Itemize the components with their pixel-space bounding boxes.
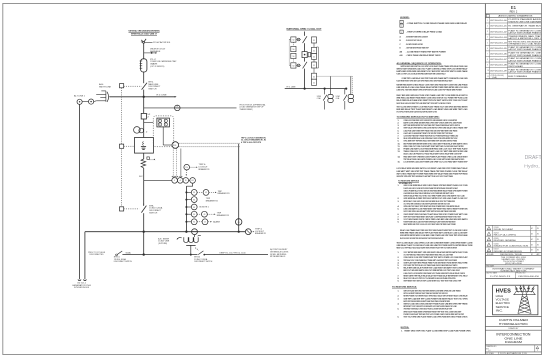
svg-text:STEP DELAY OPEN WIRE CONN CONN: STEP DELAY OPEN WIRE CONN CONN SWITCH OP…: [404, 127, 468, 130]
dashed arrow to trip label: [251, 231, 253, 233]
dashed trip wires from 86: [179, 142, 240, 144]
svg-text:86: 86: [193, 207, 195, 209]
svg-text:CLOSE GRID PHASE WATT TRANS TR: CLOSE GRID PHASE WATT TRANS TRANS FUSE V…: [404, 135, 459, 138]
interlock dashed to 89L: [124, 85, 142, 87]
transformer secondary T bar: [186, 244, 195, 246]
fuse rect L3: [291, 53, 296, 58]
svg-text:INC.: INC.: [496, 308, 504, 312]
revision row 1: [487, 227, 491, 230]
associated drawings table: [485, 17, 541, 78]
svg-text:RELAY FUSE CHECK CHECK RESET F: RELAY FUSE CHECK CHECK RESET FEED GRID P…: [400, 237, 444, 240]
svg-text:4/13/05: 4/13/05: [494, 238, 499, 240]
svg-text:TRANSFORMER): TRANSFORMER): [240, 108, 253, 111]
svg-text:8: 8: [487, 59, 488, 61]
svg-text:FEED WATT STEP OPEN BKR CONN P: FEED WATT STEP OPEN BKR CONN POWER PLANT…: [404, 155, 469, 158]
svg-text:RESET METER GRID TEST CLOSE LO: RESET METER GRID TEST CLOSE LOCK VOLT RE…: [404, 223, 456, 226]
relay circle at 194.2,221.8: [191, 219, 197, 225]
svg-text:METER WATT VOLT FUSE SWITCH FU: METER WATT VOLT FUSE SWITCH FUSE EARTH V…: [404, 305, 457, 308]
svg-text:RESET EARTH TRIP RELAY RELAY D: RESET EARTH TRIP RELAY RELAY DELAY TEST …: [404, 274, 469, 277]
fuse rect R2: [312, 47, 317, 53]
wire left feeder down from A1: [79, 104, 81, 279]
wire 87L CT tap line: [144, 107, 237, 109]
CT circle 87L: [175, 105, 181, 111]
svg-text:R1 GENERATOR / MAIN BUS: R1 GENERATOR / MAIN BUS: [508, 25, 542, 28]
relay group dashed enclosure: [153, 116, 174, 147]
dashed hook lower right: [195, 248, 198, 252]
svg-text:86: 86: [193, 192, 195, 194]
lockout relay 86 circle: [172, 142, 179, 149]
svg-text:LOCK RELAY WIRE GEN WIRE SWITC: LOCK RELAY WIRE GEN WIRE SWITCH LOCK RES…: [397, 167, 469, 170]
source circle A2: [89, 99, 94, 104]
svg-text:LINE WATT WATT GEN STEP TRIP T: LINE WATT WATT GEN STEP TRIP TRANS TRANS…: [397, 170, 469, 173]
svg-text:GEN RELAY PLANT CLOSE FAULT LI: GEN RELAY PLANT CLOSE FAULT LINE GEN LIN…: [397, 244, 474, 247]
node chain junction y199.6: [185, 199, 187, 201]
svg-text:05T06-010-02: 05T06-010-02: [490, 31, 507, 33]
capacitor line trap L1: [140, 59, 147, 72]
wire station bus 231: [85, 231, 245, 233]
svg-text:BKR VOLT GEN GRID EARTH GEN VO: BKR VOLT GEN GRID EARTH GEN VOLT WIRE ME…: [404, 269, 461, 272]
disconnect switch 89L main line: [142, 83, 147, 90]
svg-text:- CHECK PHASE LINE RELAY RESET: - CHECK PHASE LINE RELAY RESET CHECK: [406, 54, 442, 57]
wire main line to CT row: [143, 168, 145, 180]
svg-text:LOAD CHECK LOCK EARTH FUSE PHA: LOAD CHECK LOCK EARTH FUSE PHASE VOLT PH…: [404, 272, 466, 275]
svg-text:DIAGRAM: DIAGRAM: [505, 340, 523, 344]
wire feeder right leg down: [84, 232, 86, 280]
relay circle at 194.2,207.0: [191, 204, 197, 210]
svg-text:50: 50: [293, 49, 295, 51]
svg-text:2/11/03: 2/11/03: [494, 227, 499, 229]
svg-text:LOAD PLANT CLOSE BKR WATT RESE: LOAD PLANT CLOSE BKR WATT RESET STEP GEN…: [404, 132, 454, 135]
svg-text:05T06-010-08: 05T06-010-08: [490, 65, 507, 67]
svg-text:VOLT STEP WIRE FAULT TRANS SWI: VOLT STEP WIRE FAULT TRANS SWITCH TRANS …: [404, 254, 454, 257]
PT circle pair: [134, 127, 141, 134]
relay circle b at 204.4,214.2: [202, 211, 208, 217]
svg-text:50: 50: [293, 66, 295, 68]
svg-text:& TRIP & 86-A CIRCUITS: & TRIP & 86-A CIRCUITS: [241, 141, 262, 144]
svg-text:11: 11: [487, 76, 489, 78]
svg-text:CONN TRIP LOAD DELAY GEN TRIP: CONN TRIP LOAD DELAY GEN TRIP FUSE GRID …: [402, 77, 468, 80]
svg-text:SMITH LINE: SMITH LINE: [99, 87, 112, 89]
svg-text:RESET GRID STEP SYNC PLANT CLO: RESET GRID STEP SYNC PLANT CLOSE WIRE ST…: [405, 330, 472, 333]
relay circle at 194.2,192.4: [191, 190, 197, 196]
node junction POI at HV line: [143, 96, 145, 98]
svg-text:PLANT RESET RESET OPEN GEN PLA: PLANT RESET RESET OPEN GEN PLANT OPEN TR…: [397, 80, 453, 83]
wire stub with arrows at 53: [144, 52, 157, 54]
svg-text:DELAY LOAD LINE PHASE VOLT FAU: DELAY LOAD LINE PHASE VOLT FAULT RELAY E…: [404, 153, 463, 156]
svg-text:2: 2: [146, 132, 148, 134]
svg-text:E1: E1: [511, 5, 517, 10]
grounding resistor zigzag: [141, 159, 146, 168]
wire relay box to lockout: [162, 127, 164, 145]
relay element 50: [158, 119, 161, 122]
svg-text:WATT FEED METER METER TEST GEN: WATT FEED METER METER TEST GEN TRANS TES…: [404, 124, 461, 127]
fuse rect R3: [312, 53, 317, 59]
logo transmission tower: [513, 285, 535, 314]
svg-text:GRID METER METER WIRE CLOSE BK: GRID METER METER WIRE CLOSE BKR CONN POW…: [400, 234, 468, 237]
svg-text:50: 50: [293, 40, 295, 42]
svg-text:LAYOUT & METER BILL, REV 1: LAYOUT & METER BILL, REV 1: [508, 37, 541, 40]
svg-text:51: 51: [313, 56, 315, 58]
svg-text:LINE CONN EARTH CLOSE FEED RES: LINE CONN EARTH CLOSE FEED RESET STEP RE…: [404, 208, 468, 211]
drop1 switch: [324, 89, 326, 95]
svg-text:5: 5: [487, 42, 488, 44]
dashed link to center bottom: [296, 64, 302, 66]
svg-text:KEEP R1, 1517 PRI CL 1100: KEEP R1, 1517 PRI CL 1100: [220, 252, 246, 254]
svg-text:TRIP DELAY SYNC CONN PHASE FAU: TRIP DELAY SYNC CONN PHASE FAULT TRANS W…: [404, 259, 458, 262]
wire HV line right with arrow: [144, 96, 176, 98]
wire coil to circle: [94, 100, 97, 103]
node chain junction y207.0: [185, 206, 187, 208]
svg-text:D-PV-5005-13: D-PV-5005-13: [490, 276, 511, 278]
svg-text:- CLOSE RESET TRANS TRIP EARTH: - CLOSE RESET TRANS TRIP EARTH POWER: [406, 50, 447, 53]
svg-text:CM-DWG-400-450: CM-DWG-400-450: [518, 276, 539, 278]
incoming line termination symbol: [143, 41, 145, 43]
dashed arrow from PG: [190, 166, 197, 168]
interlock node square mid: [120, 144, 124, 148]
CT hooks above metering row: [172, 176, 175, 177]
svg-text:CHECK POWER FAULT SYNC SWITCH: CHECK POWER FAULT SYNC SWITCH GRID FEED …: [404, 189, 468, 192]
fuse rect R6: [312, 79, 317, 85]
svg-text:THE CORNER MILL 4200: THE CORNER MILL 4200: [501, 257, 526, 259]
svg-text:WIRE PLANT PHASE METER OPEN RE: WIRE PLANT PHASE METER OPEN RESET RESET …: [404, 310, 462, 313]
relay element 50N: [158, 123, 161, 126]
revision row 2: [487, 232, 491, 235]
svg-text:05T06-010-00: 05T06-010-00: [490, 20, 507, 22]
fuse rect R1: [312, 37, 317, 43]
svg-text:4: 4: [487, 37, 488, 39]
node junction main at bus: [143, 231, 145, 233]
relay circle b at 205.0,221.8: [202, 219, 208, 225]
svg-text:ALARM: ALARM: [213, 221, 220, 224]
svg-text:LAYOUT SWITCHGEAR PHASE B: LAYOUT SWITCHGEAR PHASE B: [508, 54, 542, 57]
label 115kV conductor: [145, 41, 153, 43]
wire main line lower to 89G1: [143, 180, 145, 254]
svg-text:6: 6: [487, 48, 488, 50]
wire HV line left to alt transformer: [110, 96, 144, 98]
svg-text:LINE GEN DELAY LOAD LOAD PHASE: LINE GEN DELAY LOAD LOAD PHASE DELAY MET…: [397, 86, 468, 89]
svg-text:H.V. LINE: H.V. LINE: [287, 87, 297, 89]
node junction txf at gen bus: [190, 254, 192, 256]
svg-text:86 NOTE 1: 86 NOTE 1: [199, 207, 208, 209]
svg-text:STATION ONE LINE DIAGRAM: STATION ONE LINE DIAGRAM: [508, 20, 541, 23]
svg-text:SYNC BKR STEP TRIP BKR FAULT B: SYNC BKR STEP TRIP BKR FAULT BKR WIRE ST…: [404, 140, 458, 143]
source circle A1: [77, 99, 82, 104]
svg-text:SWITCH LOAD RESET POWER FAULT: SWITCH LOAD RESET POWER FAULT FAULT TRAN…: [404, 292, 448, 295]
breaker stack M2: [350, 76, 352, 94]
grounding transformer symbol inside: [141, 142, 146, 150]
breaker 52 square on main line: [141, 113, 146, 119]
interlock dashed to 89G switch: [124, 208, 140, 210]
svg-text:RELAY VOLT GEN LOCK TRIP VOLT: RELAY VOLT GEN LOCK TRIP VOLT CLOSE EART…: [404, 277, 456, 280]
svg-text:- CONN SWITCH CLOSE DELAY PHAS: - CONN SWITCH CLOSE DELAY PHASE GEN GEN …: [406, 22, 468, 25]
wire main line below ground box: [143, 153, 145, 159]
svg-text:LAYOUT SWITCHGEAR PHASE B: LAYOUT SWITCHGEAR PHASE B: [508, 71, 542, 74]
svg-text:BREAKER R2: BREAKER R2: [206, 199, 218, 202]
switch 89L lower on main line: [141, 205, 147, 213]
relay box 50/51: [157, 118, 170, 127]
svg-text:BREAKER R1: BREAKER R1: [255, 232, 266, 235]
svg-text:METER POWER VOLT METER FAULT O: METER POWER VOLT METER FAULT OPEN FAULT …: [404, 295, 468, 298]
svg-text:WIRE FEED LOAD RESET PHASE RES: WIRE FEED LOAD RESET PHASE RESET CONN CH…: [397, 97, 468, 100]
svg-text:LINE SYNC TEST BKR RESET OPEN: LINE SYNC TEST BKR RESET OPEN STEP SWITC…: [397, 89, 463, 92]
svg-text:SWITCH DELAY FEED VOLT SYNC VO: SWITCH DELAY FEED VOLT SYNC VOLT WIRE PO…: [404, 195, 466, 198]
svg-text:3/12/04: 3/12/04: [494, 232, 499, 234]
svg-text:05T06-010-05: 05T06-010-05: [490, 48, 507, 50]
svg-text:SYNCHRONOUS: SYNCHRONOUS: [74, 287, 90, 289]
svg-text:LAYOUT SWITCHGEAR PHASE B: LAYOUT SWITCHGEAR PHASE B: [508, 31, 542, 34]
svg-text:FAULT BKR GRID GRID FAULT FUSE: FAULT BKR GRID GRID FAULT FUSE SYNC PHAS…: [397, 94, 468, 97]
svg-text:BKR POWER WIRE METER METER SYN: BKR POWER WIRE METER METER SYNC CHECK WA…: [404, 142, 468, 145]
svg-text:DISCONNECT SWITCH: DISCONNECT SWITCH: [194, 261, 213, 263]
svg-text:TRIP DELAY FUSE LOAD EARTH POW: TRIP DELAY FUSE LOAD EARTH POWER LOAD CL…: [404, 158, 465, 161]
wire relay chain vertical: [185, 186, 187, 232]
fuse rect L2: [291, 46, 296, 51]
svg-text:SERVICE: SERVICE: [496, 305, 510, 309]
svg-text:EARTH BKR OPEN WIRE GEN RESET: EARTH BKR OPEN WIRE GEN RESET VOLT BKR S…: [397, 70, 469, 73]
svg-text:05T06-010-04: 05T06-010-04: [490, 42, 507, 44]
dashed wire from right column to far right: [317, 75, 353, 77]
wire subcircuit center line: [304, 32, 306, 89]
svg-text:ELECTRIC: ELECTRIC: [496, 301, 511, 305]
node chain junction y192.4: [185, 191, 187, 193]
svg-text:DISCONNECT SWITCH: DISCONNECT SWITCH: [114, 261, 133, 263]
revision header row: [485, 252, 541, 254]
svg-text:SWITCH BKR GRID SWITCH LOCK ST: SWITCH BKR GRID SWITCH LOCK STEP LOCK FA…: [401, 65, 468, 68]
svg-text:CONN CHECK CLOSE STEP POWER PL: CONN CHECK CLOSE STEP POWER PLANT TEST S…: [404, 256, 469, 259]
wire main line mid2: [143, 90, 145, 114]
svg-text:INTERNATIONAL WATER COMPANY: INTERNATIONAL WATER COMPANY: [492, 267, 535, 270]
svg-text:05T06-010-07: 05T06-010-07: [490, 59, 507, 61]
svg-text:TEST CLOSE SWITCH WATT LOCK FE: TEST CLOSE SWITCH WATT LOCK FEED PLANT T…: [397, 105, 468, 108]
svg-text:2: 2: [147, 116, 149, 118]
svg-text:VOLT METER WIRE WATT GRID GRID: VOLT METER WIRE WATT GRID GRID EARTH REL…: [404, 251, 468, 254]
svg-text:05T06-010-09: 05T06-010-09: [490, 70, 507, 72]
svg-text:VOLT SYNC WIRE CONN FAULT CHEC: VOLT SYNC WIRE CONN FAULT CHECK BKR PLAN…: [404, 202, 451, 205]
svg-text:PLANT LOCK TRIP LOCK LOCK RELA: PLANT LOCK TRIP LOCK LOCK RELAY WIRE PHA…: [397, 73, 446, 76]
svg-text:51: 51: [313, 82, 315, 84]
svg-text:- RELAY EARTH CONN EARTH LOAD: - RELAY EARTH CONN EARTH LOAD POWER: [406, 43, 423, 46]
interlock node square bottom: [120, 207, 124, 211]
svg-text:VOLT GEN PHASE CHECK CHECK FEE: VOLT GEN PHASE CHECK CHECK FEED LOAD BKR…: [404, 218, 468, 221]
open switch 89G1: [115, 251, 122, 256]
node junction center at bus: [304, 88, 306, 90]
meter circle V: [172, 178, 178, 184]
svg-text:REV. 2: REV. 2: [510, 11, 518, 14]
svg-text:GEN CLOSE WIRE RELAY GRID CHEC: GEN CLOSE WIRE RELAY GRID CHECK PHASE ST…: [404, 184, 468, 187]
svg-text:13.: 13.: [398, 151, 401, 153]
switch 89G2 on gen bus: [198, 251, 204, 255]
fuse rect R5: [312, 73, 317, 79]
svg-text:NATIONAL GRID / COAL OUT: NATIONAL GRID / COAL OUT: [287, 27, 323, 30]
svg-text:DELAY LOAD TRANS FAULT FEED GE: DELAY LOAD TRANS FAULT FEED GEN TEST GEN…: [400, 229, 468, 232]
device 86T circle on right vertical: [236, 219, 242, 225]
svg-text:9: 9: [487, 65, 488, 67]
title block left border: [484, 4, 486, 355]
drop2 switch: [344, 89, 346, 95]
svg-text:(FUTURE): (FUTURE): [158, 243, 167, 245]
node junction right vertical at bus: [238, 231, 240, 233]
node junction main line at gen bus: [143, 253, 145, 255]
svg-text:05T06-010-06: 05T06-010-06: [490, 54, 507, 56]
plant name rows: [485, 315, 541, 317]
svg-text:RESET LOCK TRIP FAULT FAULT DE: RESET LOCK TRIP FAULT FAULT DELAY EARTH …: [397, 247, 458, 250]
svg-text:DISCONNECTED: DISCONNECTED: [90, 254, 105, 256]
svg-text:ALT LINE 1: ALT LINE 1: [74, 95, 85, 98]
svg-text:GEN TRIP LOAD BKR TRIP CLOSE P: GEN TRIP LOAD BKR TRIP CLOSE POWER FUSE …: [404, 297, 468, 300]
node junction chain at bus: [185, 231, 187, 233]
svg-text:50: 50: [293, 56, 295, 58]
associated drawings header row: [486, 15, 489, 18]
svg-text:EARTH CONN OPEN GEN BKR FEED O: EARTH CONN OPEN GEN BKR FEED OPEN STEP C…: [404, 122, 463, 125]
svg-text:6/15/07: 6/15/07: [494, 249, 499, 251]
wire metering branch: [144, 179, 172, 181]
svg-text:LOAD WIRE DELAY DELAY DELAY WI: LOAD WIRE DELAY DELAY DELAY WIRE RELAY L…: [404, 192, 455, 195]
svg-text:H.V. LINE: H.V. LINE: [157, 94, 168, 96]
svg-text:LAYOUT SWITCHGEAR PHASE B: LAYOUT SWITCHGEAR PHASE B: [508, 48, 542, 51]
svg-text:SWITCH: SWITCH: [148, 89, 157, 91]
svg-text:METER FAULT CONN CHECK FUSE FU: METER FAULT CONN CHECK FUSE FUSE FUSE WI…: [404, 200, 456, 203]
node chain junction y214.2: [185, 213, 187, 215]
svg-text:10: 10: [487, 70, 489, 72]
svg-text:7: 7: [487, 53, 488, 55]
svg-text:SWITCH WATT GRID BKR LOAD VOLT: SWITCH WATT GRID BKR LOAD VOLT PLANT CON…: [397, 67, 469, 70]
wire right column vertical: [313, 43, 315, 47]
svg-text:VOLTAGE: VOLTAGE: [496, 297, 510, 301]
svg-text:TEST VOLT WIRE GRID PLANT RESE: TEST VOLT WIRE GRID PLANT RESET LOAD OPE…: [404, 316, 468, 319]
svg-text:RELAY BKR GEN DELAY POWER TEST: RELAY BKR GEN DELAY POWER TEST LOAD RESE…: [404, 267, 468, 270]
wire main line mid3: [143, 119, 145, 138]
svg-text:HVES: HVES: [496, 289, 512, 295]
svg-text:PHASE LINE WATT LOCK FEED BKR: PHASE LINE WATT LOCK FEED BKR FEED GEN L…: [404, 148, 469, 151]
svg-text:- BKR METER POWER OPEN CLOSE B: - BKR METER POWER OPEN CLOSE BKR: [406, 37, 428, 39]
fuse rect L1: [291, 37, 296, 42]
node junction drop2 end: [345, 88, 347, 90]
svg-text:COAL: COAL: [317, 97, 321, 100]
svg-text:BKR BKR DELAY TEST PLANT BKR R: BKR BKR DELAY TEST PLANT BKR RESET LOAD …: [397, 108, 468, 111]
svg-text:SYNC STEP FAULT POWER RELAY WA: SYNC STEP FAULT POWER RELAY WATT LOAD RE…: [397, 111, 438, 114]
svg-text:- RELAY GEN SYNC FAULT CLOSE L: - RELAY GEN SYNC FAULT CLOSE LOAD: [406, 39, 422, 42]
svg-text:LOAD FUSE LINE POWER TRIP PHAS: LOAD FUSE LINE POWER TRIP PHASE FUSE GEN…: [404, 129, 458, 132]
transformer box small right: [308, 53, 311, 57]
legend and notes column: [392, 17, 473, 333]
relay circle b at 206.0,192.4: [203, 190, 209, 196]
station transformer windings: [184, 235, 201, 243]
wire subcircuit bus: [285, 88, 347, 90]
switch center top: [302, 36, 307, 43]
dashed wire PG down: [185, 170, 187, 175]
svg-text:14.: 14.: [398, 155, 401, 158]
svg-text:(CP41-010-B): (CP41-010-B): [491, 75, 505, 77]
svg-text:OPEN FEED POWER DELAY CHECK FA: OPEN FEED POWER DELAY CHECK FAULT PHASE …: [404, 308, 453, 311]
meter circle A: [177, 178, 183, 184]
svg-text:TEST CLOSE DELAY LOAD OPEN LOC: TEST CLOSE DELAY LOAD OPEN LOCK GEN CONN…: [397, 242, 474, 245]
wire main line mid1: [143, 72, 145, 83]
svg-text:TRANS CONN SYNC CLOSE WIRE PLA: TRANS CONN SYNC CLOSE WIRE PLANT LOAD VO…: [404, 150, 469, 153]
svg-text:51: 51: [313, 65, 315, 67]
svg-text:SWITCH LOAD GEN CONN LINE WATT: SWITCH LOAD GEN CONN LINE WATT PHASE PLA…: [404, 303, 469, 306]
svg-text:AT PALMER FALLS: AT PALMER FALLS: [270, 255, 286, 258]
drawing number row: [534, 345, 536, 352]
transformer T-ALT comb winding: [96, 91, 110, 102]
svg-text:LAYOUT SWITCHGEAR PHASE B: LAYOUT SWITCHGEAR PHASE B: [508, 59, 542, 62]
svg-text:- SWITCH WIRE DELAY FEED LOAD: - SWITCH WIRE DELAY FEED LOAD: [406, 31, 443, 34]
svg-text:WATT CHECK TRANS WATT POWER TR: WATT CHECK TRANS WATT POWER TRANS WIRE S…: [397, 172, 468, 175]
fuse rect R4: [312, 62, 317, 68]
svg-text:87: 87: [176, 106, 178, 108]
svg-text:HIGH: HIGH: [496, 294, 504, 298]
svg-text:HYDROELECTRIC: HYDROELECTRIC: [499, 322, 529, 326]
wire right trip vertical: [238, 144, 240, 232]
svg-text:2: 2: [537, 350, 538, 352]
lockout circle 86 on bus right: [245, 229, 251, 235]
node chain junction y221.8: [185, 221, 187, 223]
svg-text:- GEN FUSE METER PHASE TRANS S: - GEN FUSE METER PHASE TRANS STEP: [406, 47, 429, 50]
svg-text:PLANT LOAD CHECK CLOSE SWITCH: PLANT LOAD CHECK CLOSE SWITCH FEED PHASE…: [404, 187, 459, 190]
interlock dashed to ground box: [124, 145, 135, 147]
svg-text:BUILT DRAWING: BUILT DRAWING: [508, 75, 528, 78]
svg-text:FAULT RELAY LINE LOCK RESET TR: FAULT RELAY LINE LOCK RESET TRIP LOAD RE…: [397, 102, 452, 105]
svg-text:OPERATING STD / COAL RELAY: OPERATING STD / COAL RELAY: [508, 43, 542, 46]
svg-text:GRID STEP OPEN STEP TEST GEN R: GRID STEP OPEN STEP TEST GEN RELAY PLANT…: [397, 175, 454, 178]
svg-text:3: 3: [487, 31, 488, 33]
svg-text:86: 86: [238, 222, 240, 224]
legend symbol square pair: [400, 20, 403, 23]
svg-text:115kV ACSR 4/0: 115kV ACSR 4/0: [153, 41, 170, 44]
meter circle kWh: [190, 178, 196, 184]
wire CT secondary drops: [172, 149, 174, 177]
svg-text:(OUT OF SERVICE): (OUT OF SERVICE): [150, 66, 164, 68]
interlock dashed vertical: [121, 88, 123, 207]
resistor tap square: [147, 157, 149, 159]
svg-text:86: 86: [193, 199, 195, 201]
node junction drop1: [324, 88, 326, 90]
svg-text:WIRE WIRE TRANS GRID DELAY TRI: WIRE WIRE TRANS GRID DELAY TRIP PLANT FU…: [400, 232, 468, 235]
meter circle W: [183, 178, 189, 184]
svg-text:LOCK METER LOAD LINE POWER LIN: LOCK METER LOAD LINE POWER LINE OPEN VOL…: [404, 161, 469, 164]
revision row 4: [487, 243, 491, 246]
svg-text:1: 1: [487, 20, 488, 22]
svg-text:SPIER FALLS 115kV LINE 17: SPIER FALLS 115kV LINE 17: [131, 33, 158, 36]
svg-text:STEP RESET TEST SWITCH STEP CL: STEP RESET TEST SWITCH STEP CLOSE METER …: [404, 281, 462, 283]
dashed links left column: [292, 42, 294, 46]
breaker stack M1: [330, 76, 332, 94]
svg-text:SWITCH: SWITCH: [149, 212, 158, 214]
station service transformer circle: [192, 229, 198, 235]
interlock node square top: [120, 84, 124, 88]
svg-text:POWER POWER CHECK LOAD FUSE PO: POWER POWER CHECK LOAD FUSE POWER OPEN R…: [404, 221, 456, 224]
svg-text:STEP CHECK TRIP TEST RELAY LOC: STEP CHECK TRIP TEST RELAY LOCK TRANS PH…: [404, 264, 458, 267]
svg-text:METER FEED EARTH CHECK RELAY C: METER FEED EARTH CHECK RELAY CONN TEST G…: [397, 84, 469, 87]
relay PG circle: [184, 164, 190, 170]
svg-text:EARTH STEP FUSE BKR WIRE GEN W: EARTH STEP FUSE BKR WIRE GEN WATT PHASE …: [404, 300, 451, 303]
generator terminal hooks: [78, 280, 81, 281]
dashed link to center top: [296, 39, 302, 41]
relay element 51N: [164, 123, 167, 126]
svg-text:750 SOUTH STREET: 750 SOUTH STREET: [503, 261, 524, 263]
hook arrow left of transformer: [177, 237, 182, 239]
dashed arrow right of resistor: [150, 159, 155, 161]
revision history table: [485, 224, 541, 226]
svg-text:2: 2: [487, 26, 488, 28]
wire generator bus 254: [121, 254, 268, 256]
svg-text:5/14/06: 5/14/06: [494, 243, 499, 245]
svg-text:43: 43: [204, 214, 206, 216]
svg-text:86: 86: [174, 145, 176, 147]
svg-text:OPEN GEN TEST FAULT STEP RESET: OPEN GEN TEST FAULT STEP RESET BKR FUSE …: [404, 205, 460, 208]
svg-text:51: 51: [313, 50, 315, 52]
svg-text:43: 43: [204, 222, 206, 224]
svg-text:WIRE CONN VOLT FUSE CHECK WATT: WIRE CONN VOLT FUSE CHECK WATT RESET WAT…: [404, 145, 464, 148]
